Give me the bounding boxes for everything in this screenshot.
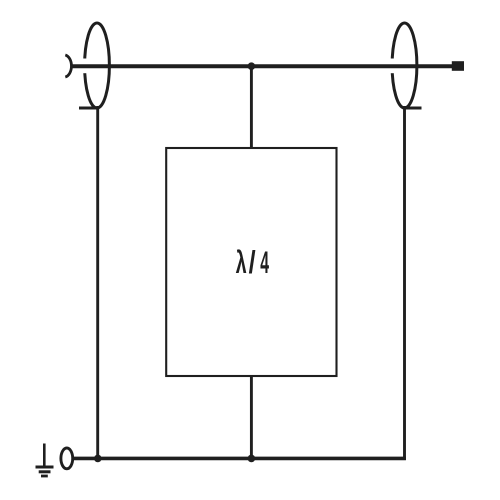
svg-text:4: 4 bbox=[260, 245, 269, 280]
svg-text:/: / bbox=[249, 246, 256, 281]
svg-text:λ: λ bbox=[236, 244, 247, 280]
